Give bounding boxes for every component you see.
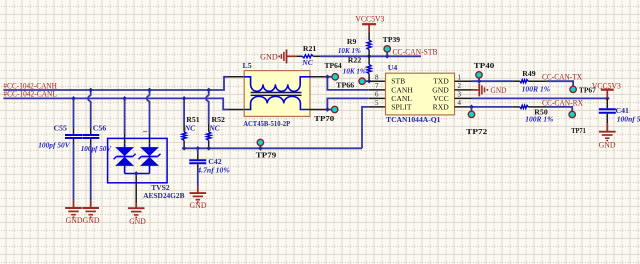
capacitor C42: [189, 148, 230, 186]
capacitor C56: [81, 123, 112, 153]
svg-text:#CC-1042-CANL: #CC-1042-CANL: [3, 90, 57, 99]
svg-text:TP71: TP71: [571, 126, 586, 135]
svg-text:1: 1: [458, 74, 462, 82]
power GND left of R21: [260, 49, 296, 63]
ground GND under C41: [599, 123, 616, 149]
svg-text:GND: GND: [190, 201, 207, 210]
resistor R21: [297, 44, 321, 67]
label CC-CAN-TX: [542, 72, 582, 81]
label CC-CAN-RX: [542, 99, 583, 108]
junction on CANH at C56: [88, 88, 93, 93]
ic U4 pin names: [391, 77, 449, 112]
junction SPLIT at TP79: [258, 146, 263, 151]
resistor R52: [207, 115, 226, 148]
testpoint TP71: [569, 111, 586, 135]
wire R51 drop from CANL: [183, 98, 185, 124]
svg-text:R22: R22: [348, 56, 362, 65]
wire transformer top to TP64 and U4 CANH: [327, 77, 369, 90]
resistor R51: [182, 115, 200, 148]
wire RXD row: [472, 106, 513, 108]
svg-text:L5: L5: [243, 61, 252, 70]
node CANL label: [3, 90, 57, 99]
resistor R22: [343, 56, 371, 82]
ic U4 body: [386, 63, 455, 124]
svg-text:3: 3: [458, 91, 462, 99]
junction SPLIT at C42: [195, 146, 200, 151]
svg-text:100R 1%: 100R 1%: [522, 85, 551, 94]
junction VCC at C41: [605, 96, 610, 101]
svg-text:TP79: TP79: [256, 151, 277, 160]
testpoint TP66 on STB row: [336, 78, 369, 90]
svg-text:TP40: TP40: [474, 61, 495, 70]
svg-text:TP64: TP64: [325, 61, 342, 70]
transformer L5 body: [243, 61, 311, 128]
transformer L5 core: [251, 93, 302, 96]
junction SPLIT at R52: [206, 146, 211, 151]
junction STB row at R22: [367, 79, 372, 84]
tvs diode right of TVS2: [139, 143, 161, 173]
testpoint TP64: [325, 61, 342, 80]
testpoint TP67: [570, 85, 596, 94]
capacitor C41: [599, 98, 640, 123]
ic U4 pin stubs right: [455, 81, 472, 107]
testpoint TP79: [256, 139, 277, 159]
wire TVS left pin from CANL: [124, 98, 126, 143]
testpoint TP40: [474, 61, 495, 81]
svg-text:TP66: TP66: [336, 81, 354, 90]
wire C55 to ground: [73, 139, 75, 201]
svg-text:100R 1%: 100R 1%: [525, 115, 553, 124]
testpoint TP39: [383, 35, 400, 56]
transformer L5 top winding: [244, 77, 310, 92]
resistor R49: [513, 69, 550, 94]
junction RXD at TP72: [469, 105, 474, 110]
junction on CANL at TVS: [122, 96, 127, 101]
testpoint TP70: [314, 106, 338, 123]
svg-text:GND: GND: [491, 86, 507, 95]
resistor R9: [338, 33, 371, 57]
junction at transformer bottom branch: [325, 107, 330, 112]
svg-text:CC-CAN-RX: CC-CAN-RX: [542, 99, 583, 108]
svg-text:CC-CAN-TX: CC-CAN-TX: [542, 72, 582, 81]
svg-text:GND: GND: [599, 140, 616, 149]
svg-text:C55: C55: [54, 123, 68, 132]
svg-text:GND: GND: [83, 216, 100, 225]
svg-text:R9: R9: [347, 37, 357, 46]
svg-text:TP39: TP39: [383, 35, 400, 44]
svg-text:AESD24G2B: AESD24G2B: [143, 191, 184, 200]
artifact small dash: [143, 131, 147, 133]
wire CC-CAN-RX: [547, 107, 573, 111]
wire C55 drop from CANL: [73, 98, 75, 134]
capacitor C55: [38, 123, 82, 149]
junction TXD at TP40: [477, 79, 482, 84]
ic U4 pin stubs left: [369, 81, 386, 107]
wire TVS right pin from CANH with hop: [147, 90, 150, 143]
node CANH label: [3, 81, 57, 90]
wire C56 drop from CANH with hop over CANL: [88, 90, 91, 134]
svg-text:VCC5V3: VCC5V3: [355, 15, 384, 24]
svg-text:100nf 50V: 100nf 50V: [617, 114, 640, 123]
transformer L5 stubs left: [228, 77, 244, 110]
junction TVS bottom: [134, 171, 139, 176]
transformer L5 stubs right: [310, 77, 327, 110]
junction STB at R9/R22: [367, 54, 372, 59]
wire CANH horizontal: [3, 77, 228, 90]
power VCC5V3 top: [355, 15, 384, 33]
svg-text:C56: C56: [93, 123, 107, 132]
svg-text:10K 1%: 10K 1%: [343, 66, 366, 75]
svg-text:SPLIT: SPLIT: [391, 102, 412, 111]
ground GND under C42: [190, 186, 207, 210]
svg-text:NC: NC: [184, 124, 196, 133]
tvs diode left of TVS2: [114, 143, 136, 173]
wire transformer bottom to TP70 and U4 CANL: [327, 98, 369, 109]
svg-text:GND: GND: [260, 53, 278, 62]
ground GND under C55: [65, 201, 83, 226]
junction on CANH at R52: [206, 88, 211, 93]
svg-text:6: 6: [375, 91, 379, 99]
svg-text:NC: NC: [301, 58, 313, 67]
ground GND under TVS2: [128, 203, 146, 226]
svg-text:R49: R49: [522, 69, 536, 78]
wire TXD row: [472, 80, 513, 82]
svg-text:GND: GND: [129, 217, 146, 226]
svg-text:7: 7: [375, 82, 379, 90]
junction SPLIT at R51: [182, 146, 187, 151]
wire R52 drop from CANH with hop: [206, 90, 209, 124]
svg-text:4: 4: [458, 99, 462, 107]
svg-text:ACT45B-510-2P: ACT45B-510-2P: [243, 119, 290, 128]
svg-text:100pf 50V: 100pf 50V: [38, 140, 70, 149]
wire SPLIT horizontal: [184, 147, 362, 149]
ic U4 pin numbers right: [458, 74, 462, 108]
svg-text:NC: NC: [208, 124, 220, 133]
svg-text:8: 8: [375, 74, 379, 82]
svg-text:TCAN1044A-Q1: TCAN1044A-Q1: [386, 115, 441, 124]
label TVS2: [143, 183, 184, 200]
junction STB at TP39: [385, 54, 390, 59]
power GND at U4 pin2: [472, 83, 507, 96]
svg-text:CC-CAN-STB: CC-CAN-STB: [393, 48, 438, 57]
svg-text:TP70: TP70: [314, 114, 334, 123]
wire CC-CAN-TX: [547, 81, 573, 86]
testpoint TP72: [466, 107, 487, 136]
wire VCC row: [472, 97, 608, 99]
wire C56 to ground: [90, 139, 92, 201]
wire SPLIT vertical to U4 pin5: [362, 107, 369, 148]
wire CANL horizontal: [3, 98, 228, 109]
ground GND under C56: [82, 201, 99, 226]
junction on CANL at R51: [182, 96, 187, 101]
tvs TVS2 box: [108, 138, 168, 182]
power VCC5V3 right: [592, 81, 621, 98]
svg-text:10K 1%: 10K 1%: [338, 46, 361, 55]
svg-text:GND: GND: [66, 216, 83, 225]
junction on CANH at TVS: [147, 88, 152, 93]
label CC-CAN-STB: [393, 48, 438, 57]
junction on CANL at C55: [71, 96, 76, 101]
junction at transformer top branch: [325, 74, 330, 79]
wire TVS common bottom: [125, 174, 150, 204]
svg-text:R21: R21: [303, 44, 317, 53]
svg-text:4.7nf 10%: 4.7nf 10%: [196, 165, 230, 174]
svg-text:5: 5: [375, 99, 379, 107]
svg-text:U4: U4: [388, 63, 398, 72]
svg-text:TP72: TP72: [466, 127, 487, 136]
transformer L5 bottom winding: [244, 96, 310, 109]
ic U4 pin numbers left: [375, 74, 379, 108]
wire STB net: [320, 55, 421, 57]
svg-text:2: 2: [458, 82, 462, 90]
svg-text:RXD: RXD: [433, 102, 450, 111]
resistor R50: [513, 105, 554, 123]
